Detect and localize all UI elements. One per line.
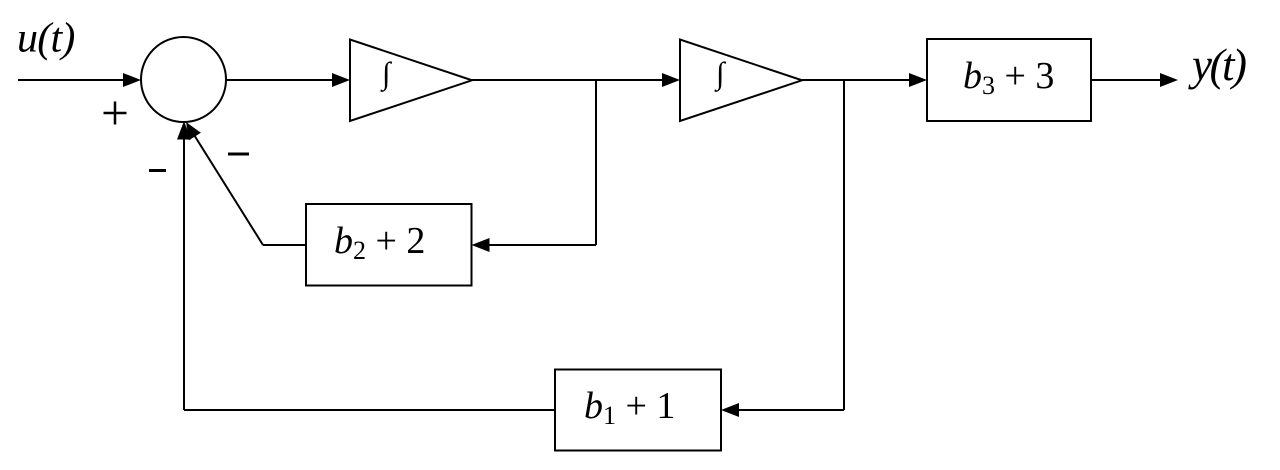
wire branch from integrator 1 output down to b2 block xyxy=(472,80,597,252)
summing junction S1 xyxy=(141,37,226,122)
svg-text:y(t): y(t) xyxy=(1188,40,1246,90)
wire branch from integrator 2 output down to b1 block xyxy=(721,80,844,417)
wire b1 block output to summing junction (bottom feedback) xyxy=(177,121,555,410)
wire b2 block output to summing junction (diagonal) xyxy=(186,122,306,245)
wire integrator 1 to integrator 2 xyxy=(472,73,680,87)
svg-text:b1 + 1: b1 + 1 xyxy=(584,385,675,430)
node minus sign for b1 feedback xyxy=(149,169,166,172)
svg-text:∫: ∫ xyxy=(714,56,727,93)
svg-text:b3 + 3: b3 + 3 xyxy=(963,55,1054,100)
gain block b2+2 xyxy=(306,204,472,286)
gain block b1+1 xyxy=(555,370,721,451)
wire input u(t) to summing junction xyxy=(18,73,141,87)
gain block b3+3 xyxy=(927,39,1091,121)
wire integrator 2 to gain block b3 xyxy=(802,73,927,87)
svg-text:u(t): u(t) xyxy=(17,16,75,62)
svg-text:∫: ∫ xyxy=(380,56,393,93)
node minus sign for b2 feedback xyxy=(228,153,249,156)
svg-text:b2 + 2: b2 + 2 xyxy=(334,220,425,265)
op-amp integrator U2 xyxy=(680,40,802,122)
wire summing junction to integrator 1 xyxy=(226,73,350,87)
node plus sign at summing junction xyxy=(104,102,127,125)
wire output to y(t) xyxy=(1091,73,1178,87)
op-amp integrator U1 xyxy=(350,40,472,122)
